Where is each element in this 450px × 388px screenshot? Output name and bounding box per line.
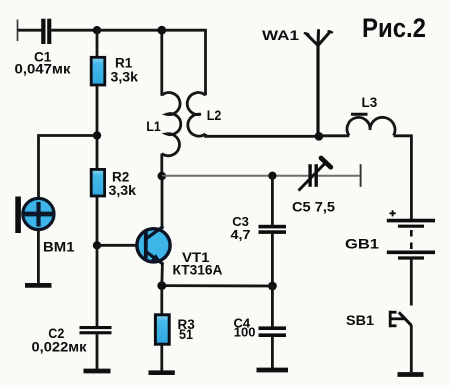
svg-text:L2: L2 xyxy=(207,108,222,123)
wire C1 to node A xyxy=(51,29,97,32)
svg-text:3,3k: 3,3k xyxy=(109,183,137,198)
wire input to C1 xyxy=(18,29,42,32)
L3 core bar xyxy=(351,113,368,116)
resistor R2 xyxy=(91,169,104,196)
node C base junction xyxy=(93,241,101,249)
node H C4 emitter junction xyxy=(268,282,277,291)
wire C4 to ground xyxy=(271,337,274,368)
svg-text:GB1: GB1 xyxy=(345,237,380,252)
wire node A to node D xyxy=(97,29,162,32)
wire node E to C5 xyxy=(162,175,309,177)
capacitor C1 xyxy=(41,19,51,44)
node E collector tank junction xyxy=(158,172,167,181)
inductor L2 xyxy=(187,93,205,137)
ground SB1 xyxy=(398,372,424,377)
wire C3 to node H xyxy=(271,234,274,286)
ground C4 xyxy=(257,368,289,373)
wire R3 to ground xyxy=(160,344,163,371)
svg-text:R1: R1 xyxy=(115,56,133,71)
wire node B to microphone xyxy=(39,136,98,199)
inductor L3 xyxy=(347,117,395,135)
svg-text:WA1: WA1 xyxy=(262,27,299,43)
wire C5 to output tick xyxy=(318,175,360,177)
switch SB1 xyxy=(389,311,411,327)
wire node H to C4 xyxy=(271,286,274,327)
wire node I to R3 xyxy=(160,286,163,316)
ground R3 xyxy=(149,370,175,375)
output terminal tick xyxy=(360,164,362,187)
wire C2 to ground xyxy=(96,334,99,369)
svg-text:Рис.2: Рис.2 xyxy=(362,13,426,43)
wire R2 to node C xyxy=(96,196,99,245)
ground microphone xyxy=(25,283,52,288)
wire node G to C3 xyxy=(271,176,274,225)
wire emitter to node I xyxy=(160,264,163,286)
svg-text:BM1: BM1 xyxy=(43,239,75,254)
node I emitter junction xyxy=(157,281,166,290)
wire L2 to antenna node xyxy=(206,134,319,136)
input terminal tick xyxy=(17,20,19,42)
wire node F to L3 xyxy=(319,134,349,137)
svg-text:КТ316А: КТ316А xyxy=(173,262,223,277)
svg-text:100: 100 xyxy=(234,324,256,339)
svg-text:0,047мк: 0,047мк xyxy=(15,61,72,77)
node G C3 junction xyxy=(268,172,276,180)
wire node D to L2 corner xyxy=(162,30,206,95)
svg-text:SB1: SB1 xyxy=(346,313,375,328)
wire node A to R1 xyxy=(96,30,99,58)
svg-text:51: 51 xyxy=(179,327,193,342)
wire SB1 to ground xyxy=(410,325,413,372)
capacitor C3 xyxy=(259,225,287,234)
wire emitter row node I to node H xyxy=(162,284,273,287)
antenna WA1 xyxy=(305,31,332,137)
inductor L1 xyxy=(162,93,181,156)
svg-text:L3: L3 xyxy=(362,95,378,110)
wire node D to L1 xyxy=(160,30,163,96)
variable capacitor C5 xyxy=(299,158,331,191)
wire microphone to ground xyxy=(37,230,40,284)
svg-text:C5 7,5: C5 7,5 xyxy=(292,199,336,214)
wire node C to C2 xyxy=(96,245,99,326)
resistor R3 xyxy=(155,315,169,344)
wire node C to VT1 base xyxy=(97,244,137,247)
microphone BM1 xyxy=(15,197,54,234)
battery plus sign xyxy=(390,210,396,216)
wire node E to collector xyxy=(161,176,164,229)
resistor R1 xyxy=(91,57,105,85)
node D junction top rail / L1 xyxy=(157,26,166,35)
transistor VT1 xyxy=(137,226,170,264)
battery GB1 xyxy=(387,221,435,258)
capacitor C2 xyxy=(80,326,112,334)
node F antenna junction xyxy=(315,132,324,141)
node A junction C1/R1 xyxy=(93,26,101,34)
svg-text:3,3k: 3,3k xyxy=(111,69,139,84)
wire battery to SB1 xyxy=(410,258,413,306)
ground C2 xyxy=(84,369,111,374)
wire R1 to node B xyxy=(96,85,99,170)
capacitor C4 xyxy=(259,326,287,337)
svg-text:0,022мк: 0,022мк xyxy=(32,339,88,355)
wire L3 to battery xyxy=(394,136,412,219)
wire L1 to node E xyxy=(160,154,163,177)
svg-text:L1: L1 xyxy=(146,119,161,134)
node B junction mic tap xyxy=(93,131,101,139)
svg-text:4,7: 4,7 xyxy=(231,227,251,242)
